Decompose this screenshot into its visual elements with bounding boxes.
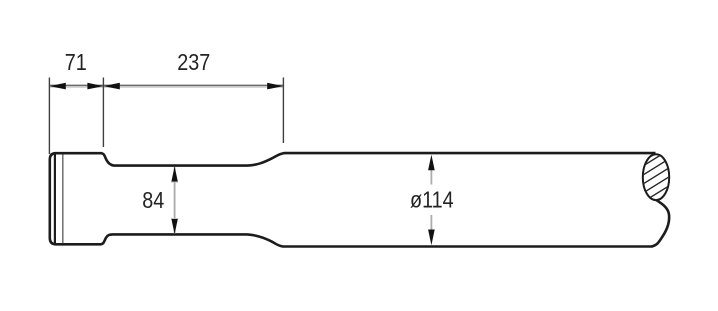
svg-text:237: 237 bbox=[177, 50, 210, 76]
svg-text:71: 71 bbox=[65, 50, 87, 76]
svg-text:84: 84 bbox=[142, 188, 164, 214]
svg-text:ø114: ø114 bbox=[410, 187, 454, 213]
